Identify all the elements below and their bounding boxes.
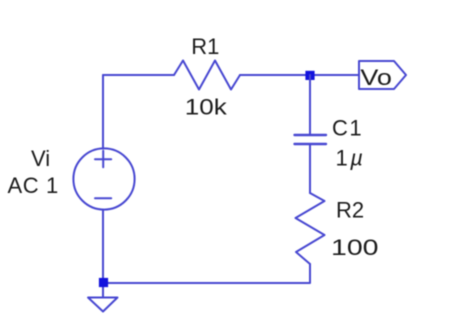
wire: C1 bottom plate to R2 top lead xyxy=(309,144,311,193)
svg-text:C1: C1 xyxy=(332,116,363,141)
voltage source Vi circle xyxy=(73,148,134,209)
minus sign of source xyxy=(95,197,111,199)
wire: junction down to C1 top plate xyxy=(309,75,311,135)
svg-text:R2: R2 xyxy=(336,197,364,222)
wire: left vertical from top corner to source top xyxy=(102,75,104,149)
svg-text:Vo: Vo xyxy=(360,65,392,90)
resistor R1 xyxy=(174,61,240,90)
port Vo xyxy=(359,61,406,89)
svg-text:R1: R1 xyxy=(191,34,219,59)
svg-text:100: 100 xyxy=(331,235,379,260)
capacitor C1 xyxy=(295,135,327,144)
svg-text:Vi: Vi xyxy=(31,146,50,171)
svg-text:1µ: 1µ xyxy=(336,146,363,171)
ground xyxy=(88,298,118,312)
resistor R2 xyxy=(296,193,325,264)
plus sign of source xyxy=(95,151,111,168)
wire: R1 right lead to Vo port xyxy=(240,74,358,76)
svg-text:AC 1: AC 1 xyxy=(8,173,59,198)
wire: source bottom to ground xyxy=(102,210,104,298)
node junction at bottom xyxy=(99,278,108,287)
node junction at R1/C1/Vo xyxy=(305,71,314,80)
svg-text:10k: 10k xyxy=(185,95,228,120)
wire: R2 bottom lead down and left along bottom to ground node xyxy=(104,264,311,283)
wire: top horizontal from corner to R1 left lead xyxy=(103,74,174,76)
